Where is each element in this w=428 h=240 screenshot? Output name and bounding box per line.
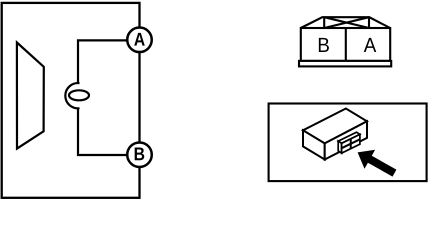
connector body bbox=[299, 17, 391, 66]
cavity divider bbox=[345, 28, 347, 61]
terminal B bbox=[127, 142, 152, 167]
module connector bbox=[338, 132, 360, 153]
relay module top face bbox=[303, 109, 367, 144]
cavity label A bbox=[364, 38, 377, 52]
bulb E1 bbox=[65, 83, 89, 108]
cavity label B bbox=[319, 38, 329, 52]
relay location box bbox=[269, 104, 427, 182]
wire bottom bbox=[78, 108, 128, 156]
connector flange bbox=[299, 61, 391, 67]
relay module left face bbox=[303, 130, 325, 159]
lens reflector bbox=[17, 43, 44, 149]
lamp housing outer box bbox=[2, 3, 140, 198]
relay module right face bbox=[325, 121, 367, 159]
arrow bbox=[358, 150, 397, 177]
wire top bbox=[78, 40, 128, 84]
terminal A bbox=[127, 28, 152, 53]
connector lock tab bbox=[301, 17, 390, 28]
